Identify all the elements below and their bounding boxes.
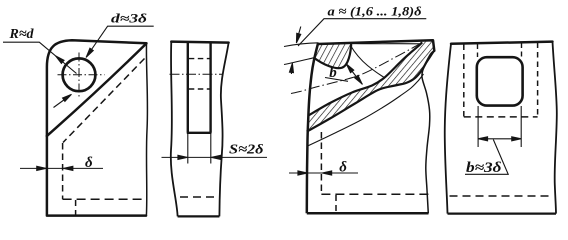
svg-text:d≈3δ: d≈3δ [111, 12, 148, 26]
svg-text:δ: δ [339, 159, 347, 175]
svg-text:b≈3δ: b≈3δ [466, 160, 502, 176]
svg-text:a ≈ (1,6 ... 1,8)δ: a ≈ (1,6 ... 1,8)δ [328, 3, 422, 18]
svg-text:S≈2δ: S≈2δ [229, 143, 264, 158]
svg-text:R≈d: R≈d [9, 27, 35, 42]
svg-text:b: b [329, 65, 337, 81]
svg-text:δ: δ [85, 155, 93, 171]
